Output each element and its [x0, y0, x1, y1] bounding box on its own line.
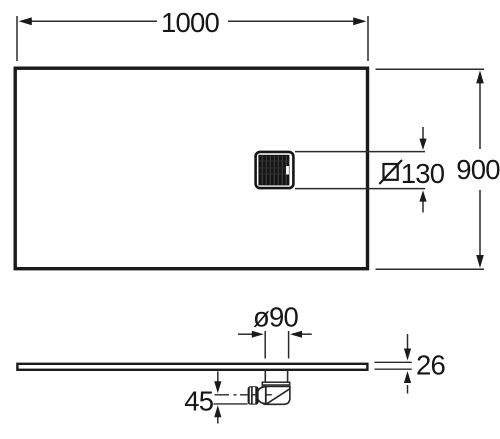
svg-text:900: 900	[456, 154, 500, 185]
side view: trap diagonal line	[267, 389, 290, 404]
side view: trap nut (ribbed)	[248, 386, 259, 404]
dimension 900: dimension line upper segment	[479, 73, 481, 149]
dimension 45: top arrow (pointing down)	[217, 372, 219, 383]
side view: trap nose (rounded cap)	[256, 387, 265, 404]
dimension 1000: right extension line	[367, 16, 369, 61]
svg-text:26: 26	[416, 350, 445, 381]
drain dimension: top leader line	[295, 151, 425, 153]
svg-text:ø90: ø90	[253, 302, 298, 333]
dimension 900: bottom extension line	[376, 268, 485, 270]
dimension 45: bottom arrow (pointing up)	[217, 416, 219, 424]
dimension 1000: dimension line left segment	[21, 20, 157, 22]
dimension 26: bottom arrow (pointing up)	[407, 385, 409, 394]
side view: drain pipe left wall	[264, 370, 266, 382]
side view: tray profile	[17, 364, 367, 370]
dimension 26: top extension line	[375, 361, 412, 363]
drain dimension: upper arrow (pointing down)	[422, 127, 424, 141]
dimension o90: left arrow	[238, 333, 253, 335]
side view: trap nose boundary line	[265, 387, 267, 404]
svg-text:1000: 1000	[161, 7, 219, 38]
dimension o90: right extension line	[288, 331, 290, 359]
dimension 900: top extension line	[376, 68, 485, 70]
dimension 1000: right arrowhead	[353, 17, 366, 25]
drain grate (top view)	[256, 152, 294, 188]
side view: outlet centerline (dash-dot)	[215, 394, 272, 396]
dimension 1000: left extension line	[16, 16, 18, 61]
dimension 1000: left arrowhead	[19, 17, 32, 25]
svg-text:130: 130	[401, 158, 445, 189]
dimension 900: bottom arrowhead	[476, 255, 484, 268]
dimension o90: left extension line	[264, 331, 266, 359]
drain dimension: lower arrow (pointing up)	[422, 199, 424, 213]
side view: trap flange	[262, 382, 289, 385]
dimension o90: right arrow	[301, 333, 312, 335]
side view: trap body	[262, 387, 290, 405]
drain dimension: slashed-square diameter symbol	[379, 160, 402, 184]
dimension 1000: dimension line right segment	[228, 20, 364, 22]
dimension 45: bottom reference line	[214, 403, 248, 405]
side view: drain pipe right wall	[287, 370, 289, 382]
dimension 900: dimension line lower segment	[479, 190, 481, 265]
dimension 26: top arrow (pointing down)	[407, 334, 409, 350]
drain dimension: bottom leader line	[295, 188, 425, 190]
shower tray outline (top view)	[15, 68, 367, 269]
dimension 900: top arrowhead	[476, 70, 484, 83]
dimension 26: bottom extension line	[375, 368, 412, 370]
svg-text:45: 45	[184, 386, 213, 417]
